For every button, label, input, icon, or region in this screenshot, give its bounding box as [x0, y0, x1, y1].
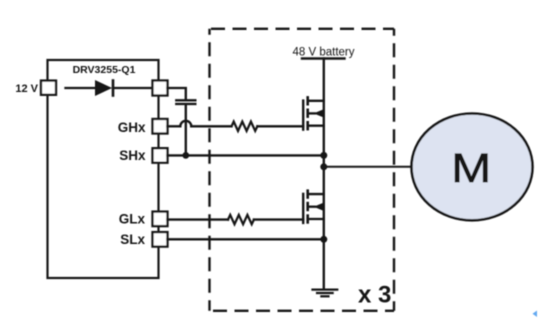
junction dot SLx/source: [320, 236, 327, 243]
svg-text:M: M: [451, 146, 491, 191]
dashed half-bridge box top edge: [210, 28, 395, 30]
diode D1: [95, 80, 113, 96]
junction dot SHx/phase: [320, 152, 327, 159]
dashed half-bridge box right edge: [393, 29, 395, 311]
wire Q1 source down to Q2 drain: [323, 126, 325, 194]
pin GLx square: [153, 212, 168, 227]
gate driver IC U1 box: [48, 60, 159, 278]
wire phase node to motor: [324, 166, 413, 168]
wire SHx pin to phase node: [168, 154, 324, 156]
wire GHx pin to hop: [168, 125, 181, 127]
junction dot motor tap: [320, 163, 327, 170]
ground symbol: [313, 290, 338, 297]
wire 12V to diode anode: [66, 87, 96, 89]
transistor Q1 (high-side NMOS): [303, 97, 324, 129]
svg-text:12 V: 12 V: [15, 83, 38, 95]
svg-text:DRV3255-Q1: DRV3255-Q1: [73, 64, 136, 76]
wire hop to gate resistor: [191, 125, 231, 127]
dashed half-bridge box bottom edge: [210, 310, 395, 312]
wire Q1 drain to battery rail: [323, 59, 325, 101]
wire hop over cap lead: [180, 121, 191, 126]
pin SHx square: [153, 148, 168, 163]
blue cursor artifact: [533, 311, 538, 318]
transistor Q2 (low-side NMOS): [303, 191, 324, 223]
pin 12V square: [41, 81, 56, 95]
wire GLx pin to gate resistor: [168, 218, 229, 220]
capacitor C1 (bootstrap): [176, 100, 195, 104]
svg-text:SHx: SHx: [119, 148, 146, 163]
wire diode cathode to VM pin: [113, 87, 153, 89]
svg-text:48 V battery: 48 V battery: [292, 47, 354, 59]
junction dot cap/SHx: [182, 152, 189, 159]
svg-text:GHx: GHx: [118, 120, 146, 135]
svg-text:GLx: GLx: [119, 211, 146, 226]
svg-text:x 3: x 3: [358, 282, 391, 309]
wire resistor to Q2 gate: [254, 218, 303, 220]
motor M: [412, 113, 533, 220]
pin GHx square: [153, 119, 168, 134]
wire resistor to Q1 gate: [257, 125, 303, 127]
battery 48V rail: [302, 57, 345, 59]
wire cap bottom to SHx net: [185, 105, 187, 156]
resistor R2 (low-side gate): [228, 215, 254, 224]
dashed half-bridge box left edge: [208, 29, 210, 311]
wire SLx pin to source net: [168, 238, 324, 240]
pin VM square (top right pin): [153, 81, 168, 96]
wire VM pin to bootstrap cap: [168, 88, 186, 99]
resistor R1 (high-side gate): [232, 122, 258, 131]
wire Q2 source to ground: [323, 219, 325, 289]
pin SLx square: [153, 232, 168, 247]
svg-text:SLx: SLx: [120, 232, 145, 247]
